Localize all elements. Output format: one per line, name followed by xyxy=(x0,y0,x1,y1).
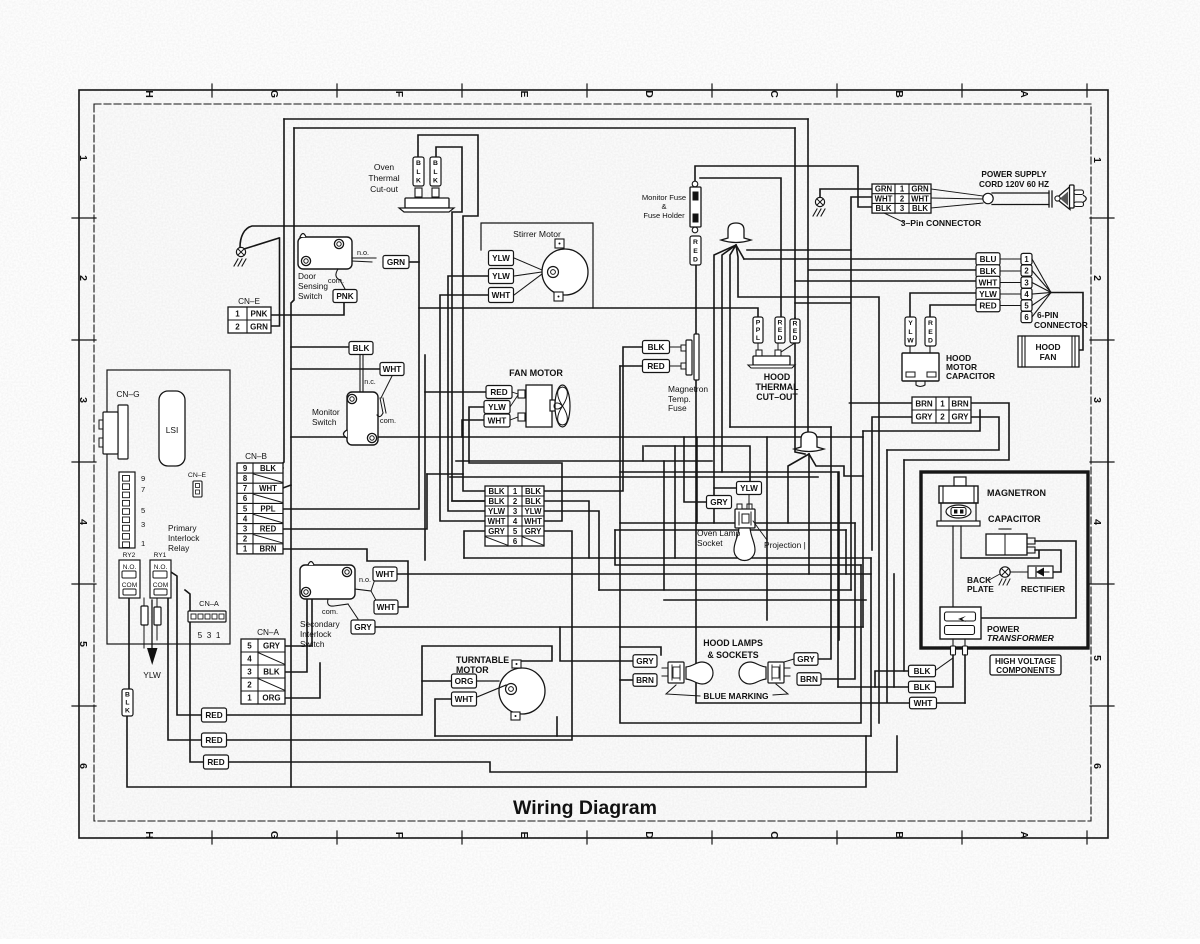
svg-text:BLK: BLK xyxy=(260,464,276,473)
frame row ticks left xyxy=(72,217,96,219)
svg-text:6: 6 xyxy=(1024,313,1029,322)
ground symbol left xyxy=(236,247,245,256)
connector CN-A board xyxy=(188,611,226,622)
wire power connector WHT to thermostat xyxy=(747,197,872,250)
svg-text:BLK: BLK xyxy=(488,487,504,496)
door sensing switch com lead xyxy=(336,269,345,289)
svg-text:R: R xyxy=(693,239,698,246)
svg-text:RECTIFiER: RECTIFiER xyxy=(1021,584,1065,594)
svg-text:Switch: Switch xyxy=(300,639,325,649)
svg-text:2: 2 xyxy=(900,194,905,203)
svg-text:WHT: WHT xyxy=(914,699,933,708)
oven thermal cut-out BLK tag 2 xyxy=(430,157,441,186)
wire turntable loop xyxy=(435,699,452,736)
wire vertical x851 xyxy=(850,250,852,590)
svg-text:CN–E: CN–E xyxy=(238,297,260,306)
svg-text:N.O.: N.O. xyxy=(123,564,137,571)
svg-text:WHT: WHT xyxy=(979,279,998,288)
svg-text:BRN: BRN xyxy=(636,676,654,685)
wire CN-B pin7 jog xyxy=(283,485,291,488)
svg-text:& SOCKETS: & SOCKETS xyxy=(707,650,758,660)
wire nest verticals xyxy=(862,431,864,627)
svg-text:7: 7 xyxy=(243,484,247,493)
svg-text:5: 5 xyxy=(513,527,518,536)
turntable motor body xyxy=(499,668,545,714)
svg-text:7: 7 xyxy=(141,485,145,494)
svg-text:3: 3 xyxy=(1024,279,1029,288)
svg-text:Oven Lamp: Oven Lamp xyxy=(697,528,741,538)
power cord wires xyxy=(931,189,983,196)
wire vertical x425 xyxy=(424,355,426,560)
svg-text:Interlock: Interlock xyxy=(300,629,332,639)
wire stirrer WHT left xyxy=(440,295,489,521)
thermostat dome 1 xyxy=(721,223,751,243)
wire fan WHT loop xyxy=(462,420,484,437)
wire nest h460 xyxy=(904,403,1009,460)
wire cross link y303 xyxy=(795,302,850,304)
svg-text:8: 8 xyxy=(243,474,248,483)
power plug xyxy=(1048,191,1050,207)
svg-text:E: E xyxy=(793,328,798,335)
svg-text:BRN: BRN xyxy=(915,399,933,408)
svg-text:B: B xyxy=(433,160,438,167)
svg-text:P: P xyxy=(756,319,761,326)
svg-text:PNK: PNK xyxy=(336,292,353,301)
primary interlock relay board xyxy=(107,370,230,644)
svg-text:C: C xyxy=(768,831,780,839)
svg-text:YLW: YLW xyxy=(143,670,161,680)
svg-text:WHT: WHT xyxy=(875,194,893,203)
wire bus x795 to RED tag xyxy=(794,128,796,318)
svg-text:4: 4 xyxy=(1091,519,1103,525)
wire bus y574 secondary WHT xyxy=(397,573,871,575)
svg-text:Interlock: Interlock xyxy=(168,533,200,543)
wire door area top xyxy=(240,226,419,247)
svg-text:D: D xyxy=(928,337,933,344)
svg-text:ORG: ORG xyxy=(455,677,474,686)
wire bus y558 xyxy=(464,557,871,559)
PNK tag door switch xyxy=(333,290,357,303)
svg-text:GRY: GRY xyxy=(915,412,933,421)
svg-text:YLW: YLW xyxy=(488,403,506,412)
svg-text:3: 3 xyxy=(247,667,252,676)
wire 6-pin BLK row xyxy=(809,269,976,271)
wire bus y308 to PPL tag xyxy=(419,308,758,317)
wire bus y523 xyxy=(697,522,855,524)
svg-text:WHT: WHT xyxy=(455,695,474,704)
wire door GRN loop xyxy=(407,261,419,263)
svg-text:YLW: YLW xyxy=(979,290,997,299)
svg-text:B: B xyxy=(125,692,130,699)
svg-text:5: 5 xyxy=(247,641,252,650)
svg-text:GRN: GRN xyxy=(875,185,893,194)
svg-text:9: 9 xyxy=(243,464,248,473)
WHT tag hv xyxy=(910,697,937,709)
svg-text:D: D xyxy=(793,335,798,342)
svg-text:com.: com. xyxy=(380,416,396,425)
fan YLW tag xyxy=(484,401,510,414)
border frame outer xyxy=(79,90,1108,838)
svg-text:R: R xyxy=(793,321,798,328)
projection label xyxy=(753,521,767,540)
wire CN-A ORG stub xyxy=(285,663,320,698)
svg-text:3: 3 xyxy=(141,520,145,529)
svg-text:2: 2 xyxy=(235,322,240,331)
svg-text:E: E xyxy=(518,90,530,97)
6-pin connector output wire xyxy=(1051,293,1083,351)
wire table row2 left xyxy=(452,500,485,502)
svg-text:Fuse: Fuse xyxy=(668,403,687,413)
monitor switch leads xyxy=(359,355,361,392)
wire oven lamp GRY left xyxy=(684,437,707,502)
svg-text:THERMAL: THERMAL xyxy=(755,382,799,392)
svg-text:2: 2 xyxy=(243,535,248,544)
fan motor terminals xyxy=(518,390,525,398)
svg-text:P: P xyxy=(756,327,761,334)
hood thermal cutout RED tag 2 xyxy=(790,319,800,343)
wire RED1 loop turntable ORG xyxy=(225,681,452,715)
fan RED tag xyxy=(486,386,512,399)
wire vertical x675 xyxy=(674,446,676,558)
svg-text:RED: RED xyxy=(979,302,996,311)
svg-text:C: C xyxy=(768,90,780,98)
hood lamp GRY right lead xyxy=(784,659,794,662)
svg-text:BLK: BLK xyxy=(914,667,931,676)
wire magnetron fuse RED link xyxy=(620,365,643,367)
svg-text:BLK: BLK xyxy=(875,204,891,213)
svg-text:B: B xyxy=(893,90,905,98)
svg-text:K: K xyxy=(416,177,421,184)
svg-text:1: 1 xyxy=(235,309,240,318)
svg-text:POWER SUPPLY: POWER SUPPLY xyxy=(981,170,1047,179)
rectifier body xyxy=(1028,566,1053,578)
svg-text:RED: RED xyxy=(647,362,664,371)
wire 6-pin BLU row xyxy=(744,258,976,260)
hood motor capacitor RED tag xyxy=(925,317,936,346)
stirrer motor lead lines xyxy=(514,258,542,270)
magnetron leads xyxy=(952,526,954,607)
wire staircase y446 xyxy=(642,446,644,461)
svg-text:R: R xyxy=(928,320,933,327)
svg-text:R: R xyxy=(778,319,783,326)
wire table row2 right xyxy=(544,501,589,558)
svg-text:n.o.: n.o. xyxy=(359,575,371,584)
monitor fuse RED tag xyxy=(690,236,701,265)
wire vertical x839 xyxy=(838,472,840,640)
svg-text:Switch: Switch xyxy=(312,417,337,427)
wire vertical x615 bus y565 xyxy=(615,530,861,565)
svg-text:2: 2 xyxy=(1091,275,1103,281)
svg-text:RED: RED xyxy=(490,388,507,397)
wire fan RED tag left xyxy=(425,391,486,393)
stirrer motor body xyxy=(542,249,588,295)
wire bus y647 xyxy=(620,647,661,655)
wire hood thermal bus y427 xyxy=(730,426,831,428)
hood thermal cutout body xyxy=(756,350,762,356)
wire door PNK loop xyxy=(271,303,344,315)
svg-text:W: W xyxy=(907,337,914,344)
svg-text:CN–A: CN–A xyxy=(199,599,219,608)
connector table BRN GRY xyxy=(912,397,971,423)
svg-text:COMPONENTS: COMPONENTS xyxy=(996,666,1055,675)
oven thermal cut-out body xyxy=(415,188,422,197)
turntable motor leads xyxy=(477,680,499,682)
svg-text:3: 3 xyxy=(513,507,518,516)
hood lamp BRN tag left xyxy=(633,674,657,687)
svg-text:GRY: GRY xyxy=(951,412,969,421)
svg-text:D: D xyxy=(693,256,698,263)
svg-text:K: K xyxy=(433,177,438,184)
wire bus x291 long xyxy=(291,128,294,787)
wire table row4 right xyxy=(469,407,562,521)
svg-text:GRN: GRN xyxy=(387,258,405,267)
svg-text:CORD 120V 60 HZ: CORD 120V 60 HZ xyxy=(979,180,1049,189)
magnetron body xyxy=(954,477,966,486)
svg-text:Thermal: Thermal xyxy=(368,173,399,183)
wire CN-B BRN row xyxy=(283,549,408,607)
wire vertical x664 xyxy=(663,461,665,590)
wire vertical x767 xyxy=(766,437,768,620)
svg-text:2: 2 xyxy=(247,680,252,689)
oven lamp bulb xyxy=(734,528,755,561)
svg-text:3: 3 xyxy=(243,524,248,533)
wire CN-A GRY stub xyxy=(285,599,312,646)
wire dome1 fan lines xyxy=(714,245,736,523)
connector table dome2 area BRN GRY wires xyxy=(849,402,912,404)
wire ground diagonal xyxy=(244,238,279,249)
hood motor capacitor YLW tag xyxy=(905,317,916,346)
svg-text:Secondary: Secondary xyxy=(300,619,341,629)
svg-text:Stirrer Motor: Stirrer Motor xyxy=(513,229,561,239)
svg-text:HIGH VOLTAGE: HIGH VOLTAGE xyxy=(995,657,1057,666)
svg-text:BLU: BLU xyxy=(980,255,997,264)
wire table row3 right xyxy=(544,511,599,590)
wire turntable enclosure xyxy=(422,646,552,681)
6-pin connector fan wires xyxy=(1032,259,1051,293)
svg-text:2: 2 xyxy=(940,412,945,421)
svg-text:GRY: GRY xyxy=(710,498,728,507)
magnetron temp fuse RED tag xyxy=(643,360,670,373)
connector table center xyxy=(485,486,544,546)
svg-text:FAN: FAN xyxy=(1040,352,1057,362)
wire top bus 1 xyxy=(284,118,808,120)
wire monitor switch WHT tag left xyxy=(291,368,380,370)
wire bus y472 xyxy=(620,472,838,687)
wire BRN lamp stub xyxy=(620,679,633,681)
svg-text:L: L xyxy=(433,169,437,176)
svg-text:COM: COM xyxy=(153,582,168,589)
wire WHT tag to transformer lead xyxy=(937,702,965,704)
svg-text:G: G xyxy=(268,90,280,98)
hv wiring magnetron to capacitor xyxy=(961,551,1039,558)
svg-text:Wiring Diagram: Wiring Diagram xyxy=(513,797,657,819)
svg-text:GRY: GRY xyxy=(636,657,654,666)
wire vertical x697 xyxy=(696,437,698,523)
svg-text:BLUE MARKING: BLUE MARKING xyxy=(703,691,768,701)
svg-text:Monitor: Monitor xyxy=(312,407,340,417)
svg-text:TURNTABLE: TURNTABLE xyxy=(456,655,509,665)
svg-text:3: 3 xyxy=(900,204,905,213)
secondary interlock leads xyxy=(355,589,371,591)
svg-text:1: 1 xyxy=(1024,255,1029,264)
svg-text:GRY: GRY xyxy=(525,527,542,536)
wire BLK tags bottom right xyxy=(875,671,909,687)
svg-text:COM: COM xyxy=(122,582,137,589)
LSI chip xyxy=(159,391,185,466)
svg-text:6: 6 xyxy=(77,763,89,769)
wire relay RY2 COM down xyxy=(128,594,130,690)
svg-text:L: L xyxy=(756,335,760,342)
svg-text:BRN: BRN xyxy=(800,675,818,684)
svg-text:3: 3 xyxy=(77,397,89,403)
svg-text:WHT: WHT xyxy=(377,603,396,612)
svg-text:9: 9 xyxy=(141,474,145,483)
svg-text:CUT–OUT: CUT–OUT xyxy=(756,392,798,402)
svg-text:LSI: LSI xyxy=(166,425,179,435)
oven lamp GRY tag xyxy=(707,496,732,509)
svg-text:&: & xyxy=(661,202,666,211)
svg-text:YLW: YLW xyxy=(488,507,506,516)
svg-text:D: D xyxy=(643,831,655,839)
wire CN-A BLK stub xyxy=(285,598,307,672)
wire magnetron fuse BLK link xyxy=(544,347,643,491)
svg-text:PNK: PNK xyxy=(251,309,268,318)
svg-text:Monitor Fuse: Monitor Fuse xyxy=(642,193,686,202)
svg-text:L: L xyxy=(908,329,912,336)
svg-text:RED: RED xyxy=(205,711,222,720)
hood lamp bulb left xyxy=(686,662,713,684)
wire bottom bus y736 xyxy=(435,735,871,737)
3-pin connector table xyxy=(872,184,931,213)
svg-text:L: L xyxy=(416,169,420,176)
svg-text:E: E xyxy=(928,329,933,336)
monitor switch WHT tag xyxy=(380,363,404,376)
svg-text:3: 3 xyxy=(1091,397,1103,403)
svg-text:WHT: WHT xyxy=(911,194,929,203)
svg-text:YLW: YLW xyxy=(492,254,510,263)
wire top bus 2 xyxy=(294,127,795,129)
wire bus x284 to CN-B pin9 xyxy=(281,119,284,468)
svg-text:N.O.: N.O. xyxy=(154,564,168,571)
wire GRY lamp stub xyxy=(560,627,633,661)
wire table row5 right RED2 loop xyxy=(225,531,572,740)
resistor R1 xyxy=(141,606,148,625)
BLK tag hv2 xyxy=(909,681,936,693)
hood lamp socket right xyxy=(768,662,784,683)
wire 6-pin WHT row xyxy=(795,280,976,282)
wire vertical x871 xyxy=(870,558,872,736)
svg-text:E: E xyxy=(778,327,783,334)
wire bus y477 xyxy=(450,476,818,478)
svg-text:CN–B: CN–B xyxy=(245,452,267,461)
wire 6-pin YLW row xyxy=(910,293,976,317)
hv wire cap terminal2 to rectifier xyxy=(1035,550,1061,572)
back plate screw xyxy=(1000,567,1010,577)
wire table row5 left stub xyxy=(464,531,485,558)
wire oven lamp YLW left xyxy=(714,487,737,489)
svg-text:GRN: GRN xyxy=(250,322,268,331)
svg-text:6: 6 xyxy=(513,537,518,546)
svg-text:BLK: BLK xyxy=(263,667,280,676)
svg-text:RY2: RY2 xyxy=(123,552,136,559)
wire bus y530 xyxy=(615,529,846,531)
svg-text:BLK: BLK xyxy=(648,343,665,352)
svg-text:RED: RED xyxy=(207,758,224,767)
wire monitor switch BLK tag left xyxy=(291,346,350,348)
hood lamp bulb right xyxy=(739,662,766,684)
stirrer WHT tag xyxy=(489,288,514,303)
connector CN-E small xyxy=(193,481,202,497)
BLK tag bottom left xyxy=(122,689,133,716)
svg-text:HOOD LAMPS: HOOD LAMPS xyxy=(703,638,763,648)
turntable WHT tag xyxy=(452,692,477,706)
svg-text:1: 1 xyxy=(141,539,145,548)
RED tag 1 xyxy=(202,708,227,722)
wire vertical x861 hood lamp loop xyxy=(620,366,861,723)
svg-text:D: D xyxy=(778,335,783,342)
svg-text:2: 2 xyxy=(513,497,518,506)
wire bus y523 extension xyxy=(620,522,697,524)
connector CN-G xyxy=(118,405,128,459)
svg-text:G: G xyxy=(268,831,280,839)
svg-text:CAPACITOR: CAPACITOR xyxy=(946,371,995,381)
svg-text:com.: com. xyxy=(328,276,344,285)
svg-text:Y: Y xyxy=(908,320,913,327)
svg-text:WHT: WHT xyxy=(488,517,506,526)
svg-text:1: 1 xyxy=(243,545,248,554)
svg-text:5: 5 xyxy=(77,641,89,647)
hood lamp socket left xyxy=(668,662,684,683)
svg-text:6-PIN: 6-PIN xyxy=(1037,310,1058,320)
svg-text:BLK: BLK xyxy=(525,497,541,506)
svg-text:2: 2 xyxy=(77,275,89,281)
wire vertical x855 to BRN lamp xyxy=(821,523,855,679)
frame column ticks top xyxy=(211,84,213,97)
svg-text:CN–G: CN–G xyxy=(116,389,139,399)
svg-text:A: A xyxy=(1018,90,1030,98)
rectifier lead to screw xyxy=(1011,571,1028,573)
svg-text:n.c.: n.c. xyxy=(364,377,376,386)
frame column ticks bottom xyxy=(211,831,213,844)
wire nest h431 xyxy=(863,410,980,431)
secondary interlock GRY tag xyxy=(351,620,375,634)
svg-text:BLK: BLK xyxy=(525,487,541,496)
svg-text:CN–A: CN–A xyxy=(257,628,279,637)
svg-text:GRY: GRY xyxy=(797,655,815,664)
svg-text:RY1: RY1 xyxy=(154,552,167,559)
wire RED3 loop xyxy=(226,736,897,772)
wire stirrer YLW2 left xyxy=(448,276,489,511)
svg-text:1: 1 xyxy=(1091,157,1103,163)
secondary interlock switch xyxy=(300,565,355,599)
svg-text:5: 5 xyxy=(141,506,145,515)
svg-text:YLW: YLW xyxy=(525,507,543,516)
wire bus y600 xyxy=(664,599,866,601)
svg-text:Socket: Socket xyxy=(697,538,723,548)
svg-text:1: 1 xyxy=(513,487,518,496)
svg-text:Primary: Primary xyxy=(168,523,197,533)
BLK tag hv1 xyxy=(909,665,936,677)
svg-text:WHT: WHT xyxy=(376,570,395,579)
svg-text:Relay: Relay xyxy=(168,543,190,553)
svg-text:BLK: BLK xyxy=(488,497,504,506)
wire CN-B RED row xyxy=(283,474,427,529)
wire vertical x831 GRY lamp right xyxy=(818,427,831,659)
svg-text:PPL: PPL xyxy=(260,504,275,513)
hood thermal cutout PPL tag xyxy=(753,317,763,343)
svg-text:MAGNETRON: MAGNETRON xyxy=(987,488,1046,498)
3-pin connector label xyxy=(884,213,903,222)
